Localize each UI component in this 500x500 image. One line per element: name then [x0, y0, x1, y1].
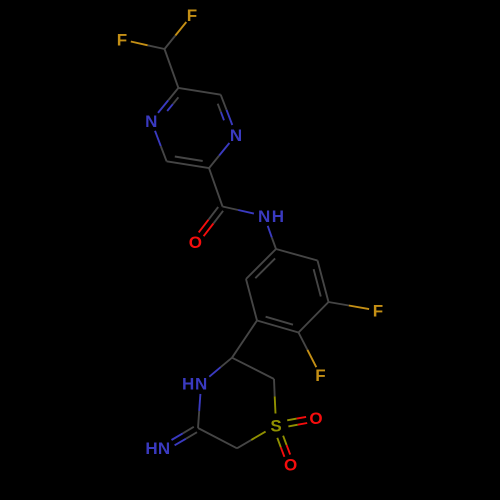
bond C6-C8 (ring to carbonyl)	[209, 168, 223, 206]
bond Cq-N1 thiadiazinane	[209, 358, 232, 377]
svg-text:N: N	[258, 207, 270, 226]
svg-text:N: N	[145, 112, 157, 131]
svg-text:S: S	[270, 417, 281, 436]
svg-text:F: F	[187, 6, 197, 25]
bond S-C5 thiadiazinane	[274, 379, 276, 414]
svg-text:N: N	[195, 374, 207, 393]
svg-text:H: H	[182, 374, 194, 393]
bond C7-F1 (C-F)	[165, 22, 187, 49]
bond C5-Cq thiadiazinane	[232, 358, 274, 379]
svg-text:O: O	[284, 456, 297, 475]
bond C3=N4 pyrazine (double)	[158, 88, 178, 113]
svg-text:O: O	[309, 409, 322, 428]
bond C4=C5 benzene (double)	[257, 317, 299, 333]
svg-text:F: F	[373, 302, 383, 321]
bond C3-C4 benzene	[299, 302, 329, 333]
svg-text:N: N	[158, 439, 170, 458]
bond C8-N amide	[223, 207, 254, 214]
bond C7-C3 (CHF2 to pyrazine)	[165, 49, 179, 88]
bond N1-C2 thiadiazinane	[198, 394, 200, 428]
bond C2-C3 pyrazine	[178, 88, 220, 95]
bond C6=C1 benzene (double)	[246, 249, 276, 279]
svg-text:O: O	[189, 233, 202, 252]
bond N1=C2 pyrazine (double)	[218, 95, 233, 125]
bond S=O bottom (double)	[277, 436, 290, 457]
bond C6-N1 pyrazine	[209, 143, 229, 168]
atom amide NH	[258, 207, 284, 226]
atom imine HN	[145, 439, 170, 458]
bond C3-S thiadiazinane	[237, 432, 266, 449]
bond C5-Cq (phenyl to thiadiazinane)	[232, 321, 257, 358]
bond C5-C6 benzene	[246, 279, 257, 321]
bond C2=N imine (double)	[172, 427, 198, 446]
bond C1-C2 benzene	[276, 249, 318, 261]
svg-text:H: H	[272, 207, 284, 226]
bond S=O right (double)	[287, 417, 307, 427]
svg-text:F: F	[315, 366, 325, 385]
bond C3-F (aryl F)	[329, 302, 370, 309]
bond N4-C5 pyrazine	[155, 131, 167, 162]
bond C2=C3 benzene (double)	[314, 261, 329, 303]
svg-text:F: F	[117, 31, 127, 50]
svg-text:N: N	[230, 126, 242, 145]
bond C7-F2 (C-F)	[131, 42, 165, 50]
bond C8=O carbonyl (double)	[199, 207, 223, 236]
bond C2-C3 thiadiazinane	[198, 428, 237, 448]
bond N-C1 (amide N to phenyl)	[268, 226, 276, 249]
bond C5=C6 pyrazine (double)	[167, 157, 209, 169]
atom ring NH	[182, 374, 207, 393]
bond C4-F (aryl F)	[299, 333, 317, 368]
svg-text:H: H	[145, 439, 157, 458]
